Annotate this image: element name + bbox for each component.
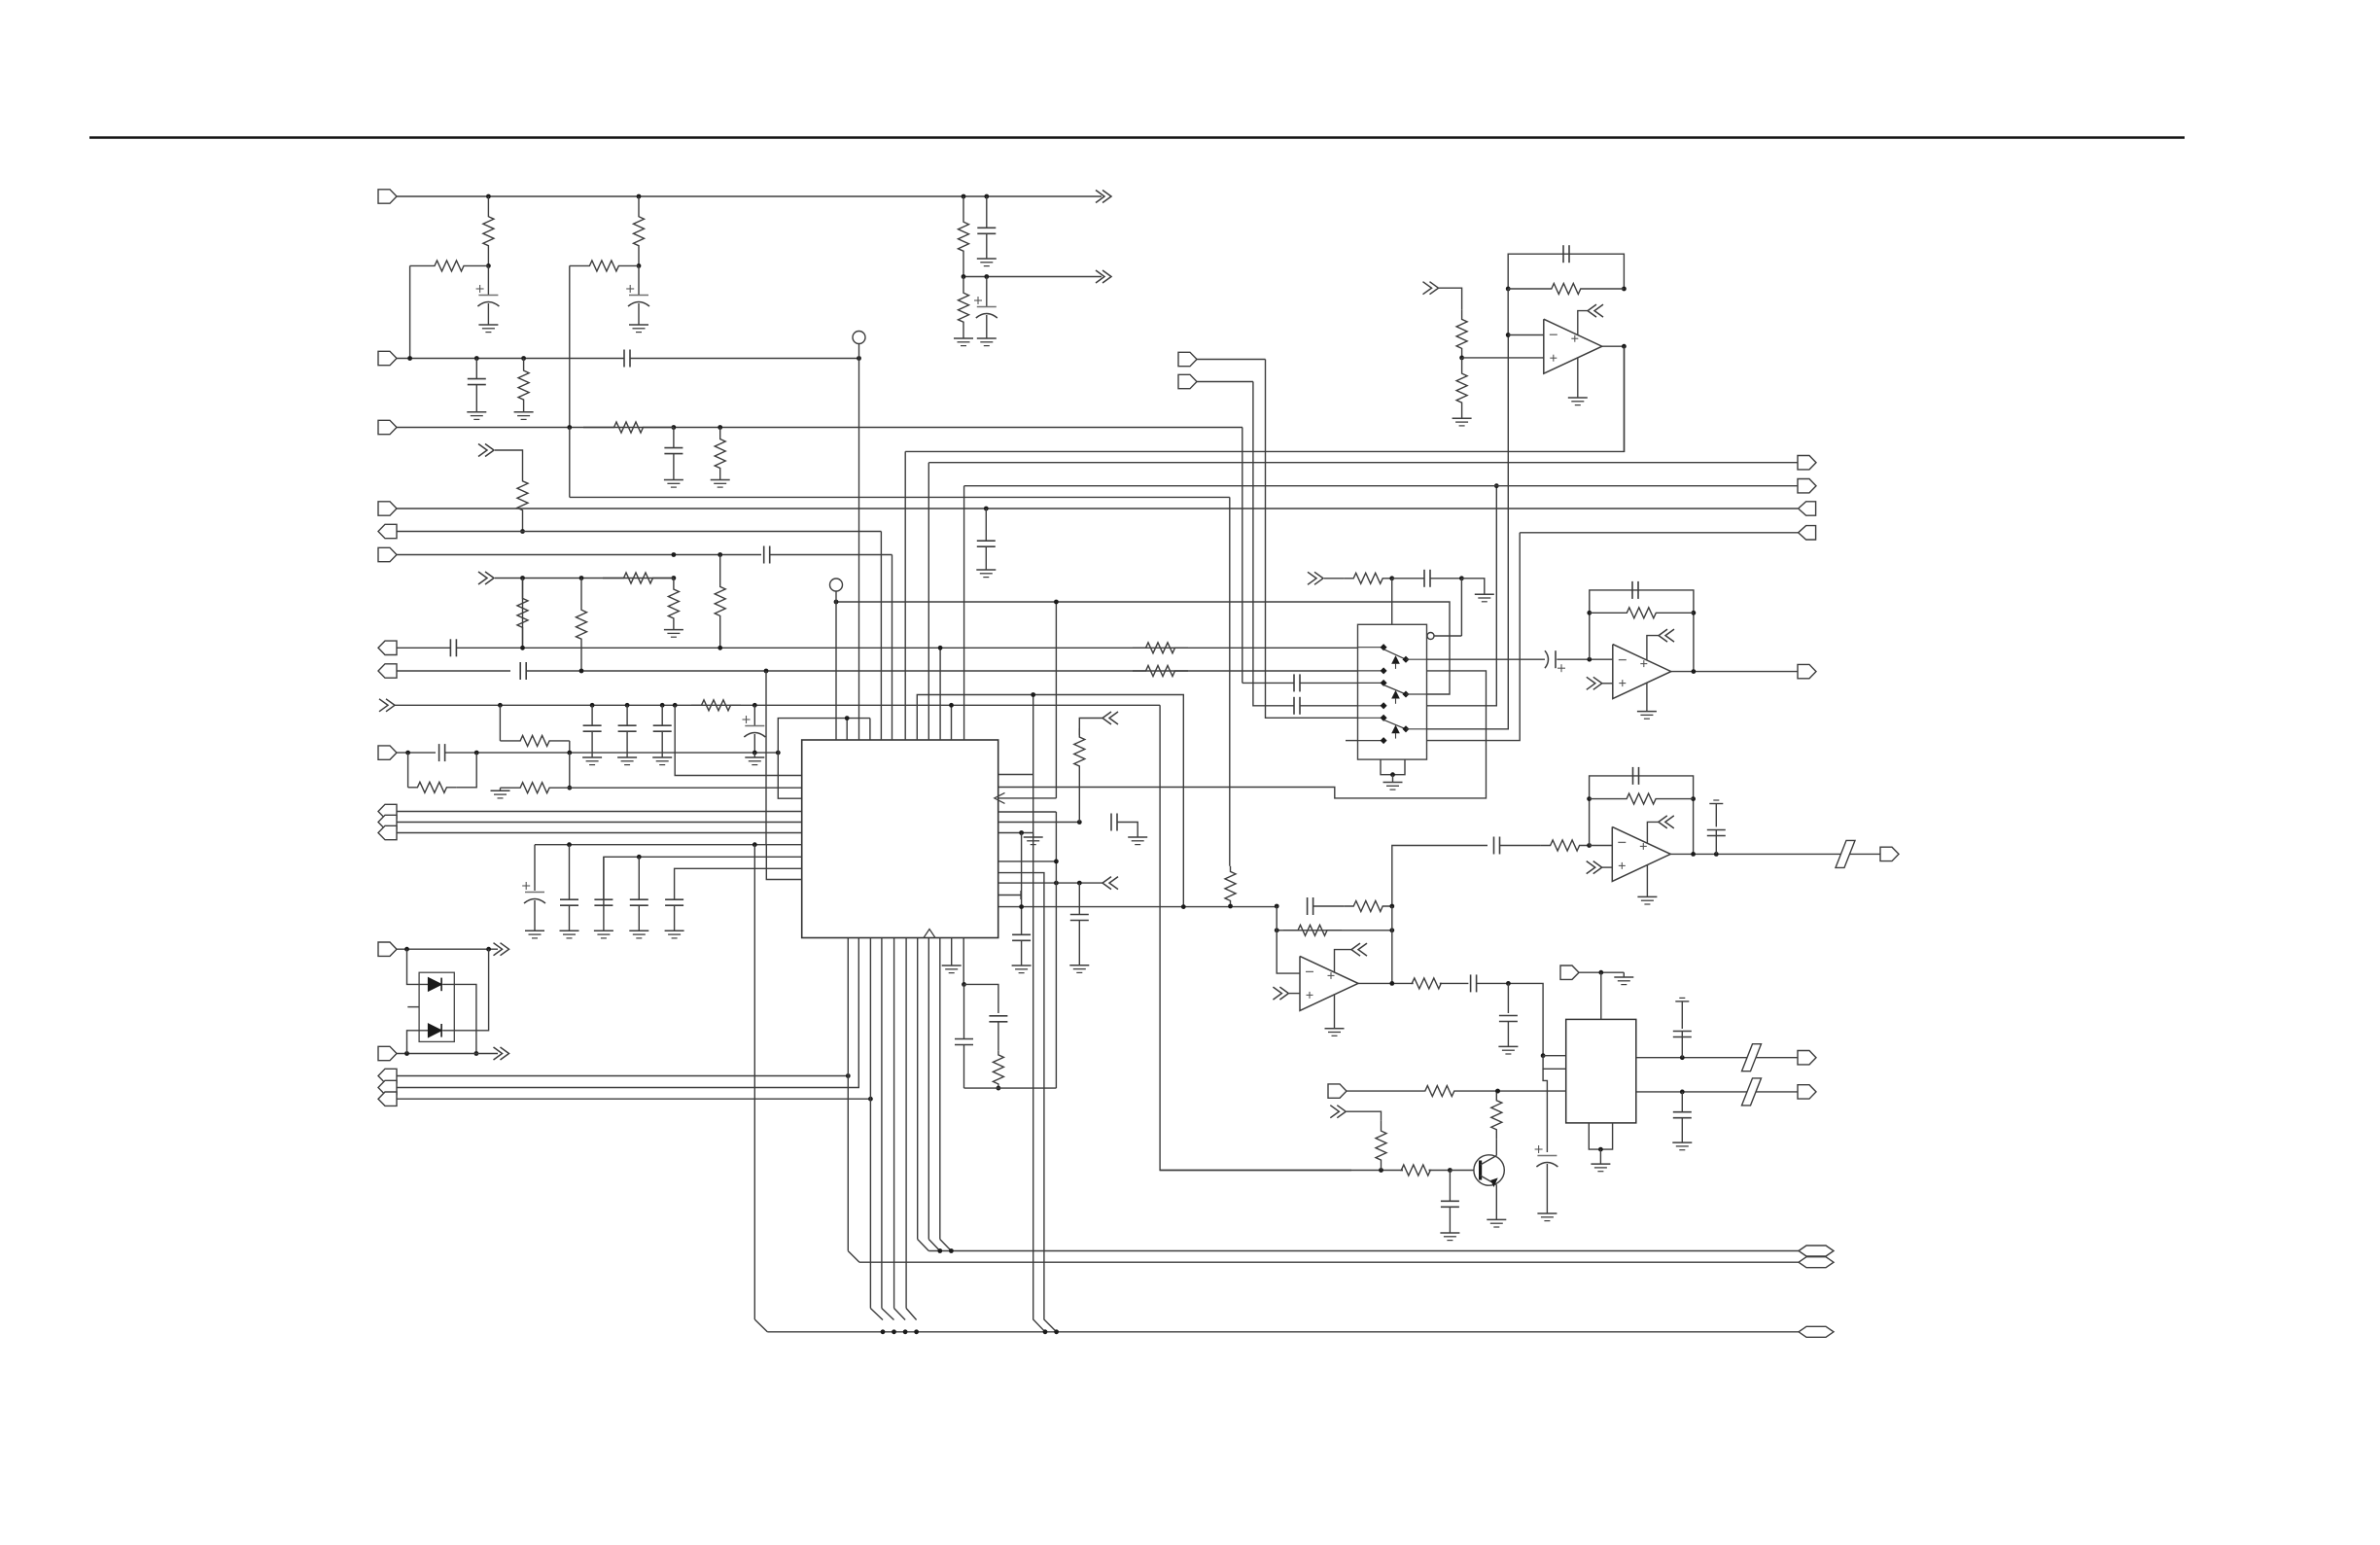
resistor R31 [1345,901,1392,912]
ground row725 x645 [617,756,637,758]
node row725 x645 [625,703,630,708]
ground C42 [1440,1232,1459,1234]
capacitor C33 series [1493,837,1495,855]
terminal out U4 [1798,664,1816,678]
hex connector H3 [1799,1326,1834,1337]
switch S2 [1358,682,1384,684]
node row594 x598 [579,576,584,580]
node row619 x1086 [1054,600,1059,605]
connector CHV15 [1337,1106,1346,1118]
wire R36 [1429,1170,1451,1172]
ground row594 [1475,593,1494,595]
resistor R32 [1283,925,1342,935]
wire U3 out drop [1623,346,1625,452]
wire row957 [1277,930,1392,931]
testpoint TP1 [853,332,865,344]
terminal J12 trio1 [378,825,397,839]
connector CHV13 [1279,987,1288,1000]
resistor R3 [959,196,969,277]
resistor R24 [1345,573,1392,583]
wire row690 [397,670,510,672]
resistor R5 [570,261,639,271]
wire row511 drop [1229,497,1231,865]
node row522 x1014 [984,507,989,511]
U6 gnd [1334,995,1336,1029]
wire U1 tpin967 [939,648,941,740]
wire row868 [535,844,802,846]
node row725 x609 [590,703,595,708]
wire pole3 [1427,335,1509,729]
node U5 out b [1714,852,1719,857]
row810 gnd [500,788,502,790]
U4 pwr [1647,636,1659,660]
wire x1063 [1033,695,1045,1332]
wire x694 drop [675,705,802,775]
node row932 x1265 [1228,904,1233,909]
capacitor row725 x645 [626,705,628,724]
terminal J10 trio1 [378,804,397,818]
capacitor C36 series [1307,897,1309,915]
ground U1 pin856 [1032,833,1034,838]
wire C29 [1300,705,1357,707]
wire Q1 collector [1495,1139,1497,1155]
wire x991-x1027 [964,984,998,1013]
rail bottom2 [859,1261,1799,1263]
wire U3 out [1602,345,1625,347]
wire x1050 drop [1021,833,1023,935]
node row594 x537 [520,576,525,580]
node J20 [1598,970,1603,975]
wire x800 up [778,719,870,754]
node U3 fb r [1622,287,1627,292]
arrow out row976 [501,943,509,956]
capacitor C28 series [1293,674,1295,691]
terminal J21 [1328,1084,1347,1098]
opamp U4 [1613,645,1671,699]
wire U1 pin835 [998,811,1057,813]
node row594 x693 [672,576,677,580]
resistor R29 [1541,840,1590,851]
connector CHV1 row725 [386,699,395,712]
resistor R20 bypass [407,753,409,788]
node row690 x598 [579,669,584,674]
wire U2 throw761 right [1427,533,1521,741]
capacitor C35 [1715,830,1717,855]
wire row439 drop x1278 [1242,428,1243,684]
wire trio1a [397,811,802,813]
terminal J5 row546 [378,524,397,538]
wire U4 fb [1590,590,1694,672]
resistor R15 x741 [715,555,725,649]
ground R14 [664,629,683,631]
capacitor C19 [603,857,605,898]
resistor R21 row810 [501,783,570,793]
wire row666 [397,647,450,649]
node U5 fb l [1587,796,1592,801]
wire R24-C27 [1392,578,1424,579]
wire row284 [963,276,1102,278]
wire inv [1434,635,1462,637]
node row725 x694 [673,703,678,708]
node row725 x776 [752,703,757,708]
U4 gnd [1646,683,1648,711]
wire R4 left [409,265,411,358]
wire row810 right [570,787,802,789]
node row284 x1015 [984,274,989,279]
ground C18 [560,930,579,931]
node row368 x421 [407,356,412,361]
resistor R26 [1456,310,1467,358]
wire CHV7 [1439,288,1462,310]
wire row666 b [457,647,1358,649]
pcap C2 [638,265,640,295]
node x871 [845,716,850,720]
wire x788 drop [765,671,767,845]
pcap C17 [534,845,536,891]
wire U1 row619 [1056,602,1450,694]
capacitor C27 series [1423,570,1425,587]
wire U1 tpin883 [858,359,860,741]
wire U1 tpin978 [951,705,953,740]
node row368 x490 [474,356,479,361]
wire C36 [1313,905,1345,907]
wire row368 [397,358,624,360]
opamp U3 [1544,319,1602,373]
wire C28 [1300,682,1357,684]
ground C3 [977,258,997,260]
wire U7 top pin [1600,972,1602,1019]
wire U2 in6 [1346,740,1358,742]
pcap C15 [753,705,755,725]
ground C7 [664,479,683,481]
node row976 x502 [486,947,491,952]
capacitor C26 [963,984,965,1039]
node row666 x967 [938,646,943,650]
node row725 x978 [949,703,954,708]
wire trio2a [397,1075,848,1077]
node row881 x657 [637,855,642,860]
wire CHV6 [1324,578,1345,579]
node R2 bottom [637,263,642,268]
wire base rail [1160,1170,1403,1172]
resistor R6 [959,277,969,339]
wire R5 left drop [569,265,571,427]
wire row869 in [1392,846,1487,907]
node R37 top [1495,1089,1500,1094]
ground R7 [514,411,534,413]
resistor R4 [410,261,489,271]
wire D1 in [407,949,432,984]
wire U3 fb top [1508,254,1624,289]
connector CHV14 [1351,943,1360,956]
U3 gnd [1577,358,1579,398]
terminal J6 row570 [378,547,397,561]
capacitor C41 [1681,1092,1683,1112]
node U5 inv [1587,843,1592,848]
node row774 x586 [567,751,572,755]
wire U6 inv [1277,906,1300,973]
wire U1 tpin894 [869,719,871,740]
wire U1 tpin955 [927,463,929,740]
arrow out row1083 [501,1047,509,1060]
wire row690 b [526,670,1357,672]
wire U1 tpin871 [846,719,848,740]
resistor R14 x693 [668,579,679,630]
wire base in [1450,1170,1474,1172]
node row439 x741 [717,425,722,430]
node U6 out [1389,981,1394,986]
wire row464 [905,346,1624,451]
wire x1086 mid [1055,812,1057,1088]
node row594 x1432 [1389,576,1394,580]
wire R33 [1440,982,1469,984]
U7 pin1085 [1541,1053,1546,1058]
wire row725 [395,704,1160,706]
wire row976 [397,948,498,950]
switch box U2 [1358,624,1427,759]
U6 pwr [1335,950,1352,973]
node base x1420 [1379,1168,1383,1173]
node rail3 [881,1329,886,1334]
wire U1 pin845 right [998,822,1080,824]
resistor R33 [1412,978,1441,989]
capacitor row725 x681 [661,705,663,724]
wire U1 pin809 right [998,671,1487,798]
wire row881 [604,857,802,906]
diode D1b [429,1024,442,1037]
capacitor C8 [985,509,987,541]
ground C8 [976,569,996,571]
wire U5 fb [1590,776,1694,855]
testpoint TP2 [830,579,843,591]
wire U2 in3 [1242,682,1294,684]
wire U5 out [1670,853,1880,855]
terminal J13 row976 [378,942,397,956]
wire U5 inv [1590,845,1613,847]
wire U1 pin820 [998,797,1057,799]
pcap C4 [986,277,988,307]
node U4 inv [1587,657,1592,662]
rail bottom3 [767,1331,1799,1333]
IC U1 body [802,740,998,938]
node U3 out [1622,344,1627,349]
wire J20 gnd [1623,972,1625,977]
ground C23 [1012,965,1032,966]
wire row202 [397,195,1102,197]
node U3 plus div [1459,356,1464,361]
node x1086 row908 [1054,881,1059,886]
node row868 x776 [752,842,757,847]
capacitor C22 series [1110,814,1112,831]
pcap C31 series [1545,650,1549,668]
node trio2c [868,1097,873,1102]
capacitor C11 series [519,662,521,680]
node row439 x586 [567,425,572,430]
wire U7 out2 [1636,1091,1798,1093]
wire x537 drop [522,579,524,649]
resistor R35 [1376,1121,1386,1171]
terminal J3 row439 [378,420,397,434]
slash U5 out [1836,840,1855,867]
resistor R17 row690 [1133,666,1188,677]
node row932 x1313 [1275,904,1279,909]
terminal J15 trio2 [378,1069,397,1082]
wire x1086 619-821 [1055,602,1057,798]
IC U1 clk notch [924,930,935,938]
node row439 x693 [672,425,677,430]
connector CHV9 [1593,677,1602,689]
wire U2 in5 [1266,360,1358,719]
connector CHV7 [1430,282,1439,295]
node row666 x741 [717,646,722,650]
node rail3 [914,1329,919,1334]
wire row570 [397,554,761,556]
node row774 x490 [474,751,479,755]
wire U3 inv [1507,289,1509,335]
wire C37 [1477,983,1543,1055]
wire trio1b [397,822,802,824]
node row810 x586 [567,786,572,790]
connector CHV3 [485,572,494,584]
ground C38 [1498,1045,1518,1047]
node row725 x681 [660,703,665,708]
wire U1 tpin917 [892,555,893,741]
terminal out1 [1798,1051,1816,1065]
diode pack D1 box [419,972,454,1041]
node trio2a [846,1073,851,1078]
resistor R19 row762 [500,735,569,746]
U1 bottom pins bundle [847,938,849,1251]
terminal J2 row368 [378,351,397,365]
wire U3 plus [1462,357,1544,359]
terminal J16 trio2 [378,1080,397,1094]
node row202 x991 [962,194,966,199]
wire row499 [964,485,1798,487]
diode D1a [429,978,442,992]
ground C24 [1069,965,1089,966]
wire CHV15 [1347,1111,1382,1121]
wire trio2b [397,938,858,1088]
opamp U6 [1300,956,1358,1010]
node U4 fb l [1587,611,1592,615]
resistor R23 [993,1051,1003,1088]
resistor R22 x1110 [1074,728,1085,775]
capacitor C30 [1562,245,1564,263]
connector CHV11 [1593,861,1602,874]
connector CHV8 [1588,304,1596,317]
capacitor C7 [673,428,675,448]
node row1083 x490 [474,1051,479,1056]
wire U1 tpin991 [963,486,965,740]
wire x800 down [778,753,801,798]
wire pole1 ext [1590,658,1613,660]
wire row547 right [1520,532,1798,534]
resistor R12 [517,579,528,649]
wire row774 b [445,752,779,754]
U7 pin1099 [1543,1056,1566,1070]
node row202 x657 [637,194,642,199]
ground row725 x609 [582,756,602,758]
hex connector H1 [1799,1246,1834,1256]
terminal out row499 [1798,479,1816,493]
inverter bubble U2 [1427,633,1434,640]
node x1050 row932 [1019,904,1024,909]
ground C19 [594,930,613,931]
node C38 tap [1506,981,1511,986]
ground C39 [1537,1212,1557,1214]
node U3 inv [1506,333,1511,337]
resistor R34 [1425,1086,1454,1097]
switch S1 [1358,647,1384,649]
capacitor C40 [1681,1032,1683,1058]
wire row511 [570,496,1230,498]
node row570 x693 [672,552,677,557]
capacitor C10 series [449,639,451,656]
capacitor C38 [1507,983,1509,1013]
wire U6 out [1358,982,1414,984]
resistor R25 [1508,284,1624,295]
node row1119 x1027 [997,1086,1001,1091]
resistor R27 [1456,358,1467,418]
connector CHV10 [1659,629,1667,642]
connector CHV5 [1102,877,1111,890]
wire row522 [397,508,1798,509]
connector CHV2 [485,444,494,457]
node row774 x800 [776,751,781,755]
ground C40 inv [1675,1001,1689,1002]
resistor R36 [1401,1165,1430,1176]
resistor R2 [634,196,645,265]
capacitor C34 [1632,767,1634,785]
wire U2 throw725 right [1427,486,1497,706]
node row666 x537 [520,646,525,650]
wire row1122 [1347,1090,1425,1092]
wire row594 [495,578,674,579]
node x1110 row908 [1077,881,1082,886]
resistor R10 [517,460,528,532]
terminal J4 row522 [378,502,397,515]
wire row1083 [397,1053,498,1055]
node row957 r [1389,928,1394,932]
resistor R11 [603,573,674,583]
wire U3 inv in [1508,334,1544,336]
terminal J19 [1178,374,1197,388]
ground C22 [1128,836,1147,838]
wire Q1 emitter [1495,1185,1497,1220]
node row570 x741 [717,552,722,557]
ground C17 [525,930,544,931]
U7 jog pcap [1543,1069,1547,1152]
wire U1 pin932 [998,906,1277,908]
wire U1 pin796 [998,774,1033,776]
capacitor row725 x609 [591,705,593,724]
U1 pin820 arrow [995,792,1005,803]
wire x514 [499,705,501,741]
wire U1 tpin943 rail714 [917,695,1183,907]
node row957 l [1275,928,1279,932]
node rail3 x1086 [1054,1329,1059,1334]
terminal J14 row1083 [378,1046,397,1060]
node x991 1012 [962,982,966,987]
capacitor C37 series [1470,974,1472,992]
wire U1 pin897 [998,873,1057,1332]
U5 pwr [1647,822,1658,843]
connector CHV4 [1102,712,1111,724]
wire U2 in4 [1253,382,1294,706]
node row202 x502 [486,194,491,199]
wire row368 right [630,358,859,360]
node U5 fb r [1691,796,1696,801]
